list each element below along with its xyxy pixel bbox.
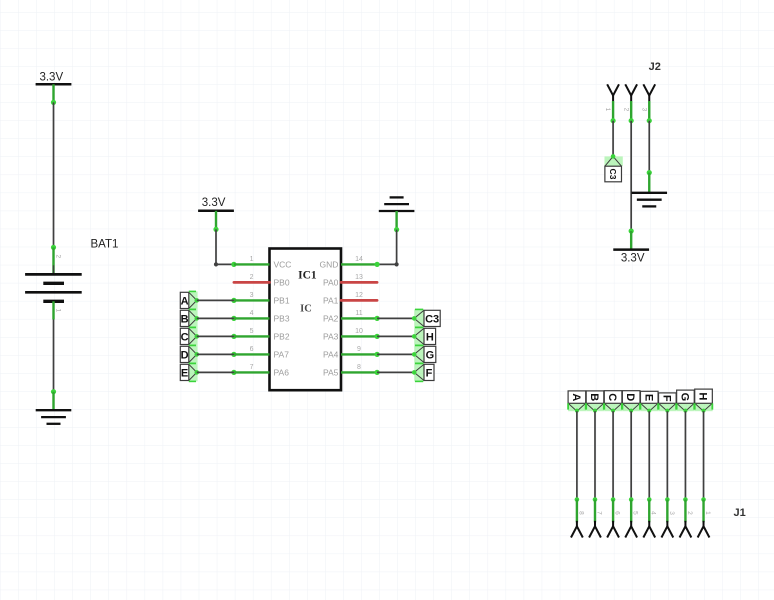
op-amp/IC body U=IC1 bbox=[270, 249, 342, 391]
connector J1 pin 1 bbox=[698, 497, 711, 537]
svg-text:GND: GND bbox=[320, 260, 339, 270]
net label B (J1) bbox=[586, 391, 604, 413]
IC1 pin 2 (PB0) bbox=[234, 274, 290, 288]
svg-text:5: 5 bbox=[250, 328, 254, 335]
wire (label C to IC) bbox=[197, 335, 234, 337]
svg-text:4: 4 bbox=[250, 310, 254, 317]
wire (ground to IC pin 14) bbox=[378, 211, 399, 267]
connector J2 pin 3 bbox=[640, 84, 655, 123]
svg-text:1: 1 bbox=[704, 511, 711, 515]
battery BAT1 pin 1 lead bbox=[52, 301, 54, 319]
svg-text:4: 4 bbox=[650, 511, 657, 515]
pin number 1 (BAT1) bbox=[55, 308, 62, 312]
wire (label C to J1 pin 6) bbox=[612, 411, 614, 499]
svg-text:IC1: IC1 bbox=[298, 269, 317, 281]
svg-text:PA1: PA1 bbox=[323, 296, 339, 306]
svg-text:BAT1: BAT1 bbox=[91, 239, 119, 251]
svg-text:13: 13 bbox=[355, 274, 363, 281]
svg-text:PB0: PB0 bbox=[274, 278, 290, 288]
wire (3.3V to IC pin 1) bbox=[213, 211, 234, 267]
svg-text:H: H bbox=[697, 392, 709, 400]
net label C3 (right) bbox=[412, 309, 440, 327]
svg-text:5: 5 bbox=[632, 511, 639, 515]
wire (label G to J1 pin 2) bbox=[684, 411, 686, 499]
svg-text:2: 2 bbox=[622, 108, 629, 112]
svg-text:C: C bbox=[181, 331, 189, 343]
wire (label H to J1 pin 1) bbox=[703, 411, 705, 499]
svg-text:E: E bbox=[181, 367, 188, 379]
ground (IC GND, inverted) bbox=[379, 197, 415, 211]
net label H (right) bbox=[412, 327, 436, 345]
svg-text:8: 8 bbox=[357, 364, 361, 371]
svg-text:3: 3 bbox=[640, 108, 647, 112]
power flag 3.3V (J2, inverted) bbox=[613, 250, 649, 265]
connector J1 pin 6 bbox=[607, 497, 620, 537]
IC1 pin 11 (PA2) bbox=[323, 310, 380, 324]
svg-text:3.3V: 3.3V bbox=[202, 197, 226, 209]
net label G (right) bbox=[412, 345, 436, 363]
wire (label A to J1 pin 8) bbox=[576, 411, 578, 499]
svg-text:11: 11 bbox=[355, 310, 362, 317]
wire (label B to J1 pin 7) bbox=[594, 411, 596, 499]
svg-text:PA5: PA5 bbox=[323, 368, 339, 378]
wire (J2 pin1 to C3 flag) bbox=[612, 121, 614, 157]
junction (battery pin 2 end) bbox=[51, 245, 56, 250]
net label G (J1) bbox=[677, 390, 695, 413]
svg-text:3: 3 bbox=[668, 511, 675, 515]
svg-text:6: 6 bbox=[613, 511, 620, 515]
label IC1 bbox=[298, 269, 317, 281]
svg-text:7: 7 bbox=[595, 511, 602, 515]
connector J1 pin 5 bbox=[625, 497, 638, 537]
svg-text:12: 12 bbox=[355, 292, 363, 299]
svg-text:PB3: PB3 bbox=[274, 314, 290, 324]
power flag 3.3V (battery positive net) bbox=[36, 72, 72, 85]
svg-text:7: 7 bbox=[250, 364, 254, 371]
wire (IC to label C3) bbox=[377, 317, 414, 319]
svg-text:9: 9 bbox=[357, 346, 361, 353]
wire (label D to IC) bbox=[197, 353, 234, 355]
wire (IC to label F) bbox=[377, 371, 414, 373]
svg-text:A: A bbox=[570, 393, 582, 401]
wire (3.3V flag to battery +) bbox=[51, 84, 56, 247]
IC1 pin 9 (PA4) bbox=[323, 346, 380, 360]
connector J1 pin 8 bbox=[571, 497, 584, 537]
IC1 pin 5 (PB2) bbox=[231, 328, 290, 342]
svg-text:D: D bbox=[624, 393, 636, 401]
label J2 bbox=[649, 61, 661, 73]
label IC bbox=[300, 303, 312, 314]
IC1 pin 6 (PA7) bbox=[231, 346, 289, 360]
wire (J2 pin3 to ground) bbox=[647, 121, 652, 193]
battery BAT1 symbol bbox=[25, 265, 82, 301]
svg-text:1: 1 bbox=[55, 308, 62, 312]
net label F (right) bbox=[412, 363, 434, 381]
svg-text:IC: IC bbox=[300, 303, 312, 314]
wire (J2 pin2 to 3.3V) bbox=[629, 121, 634, 250]
pin number 2 (BAT1) bbox=[55, 254, 62, 258]
svg-text:PA6: PA6 bbox=[274, 368, 290, 378]
wire (label F to J1 pin 3) bbox=[666, 411, 668, 499]
net label H (J1) bbox=[695, 389, 713, 413]
net label C (J1) bbox=[604, 391, 622, 413]
connector J2 pin 1 bbox=[604, 84, 619, 123]
svg-text:G: G bbox=[678, 393, 690, 402]
svg-text:PA4: PA4 bbox=[323, 350, 339, 360]
svg-text:D: D bbox=[181, 349, 189, 361]
IC1 pin 7 (PA6) bbox=[231, 364, 289, 378]
svg-text:2: 2 bbox=[250, 274, 254, 281]
IC1 pin 10 (PA3) bbox=[323, 328, 380, 342]
svg-text:B: B bbox=[181, 313, 189, 325]
IC1 pin 3 (PB1) bbox=[231, 292, 290, 306]
net label C (left) bbox=[180, 327, 199, 345]
wire (IC to label G) bbox=[377, 353, 414, 355]
svg-text:J1: J1 bbox=[734, 507, 746, 519]
svg-text:PA2: PA2 bbox=[323, 314, 339, 324]
net label A (left) bbox=[180, 291, 199, 309]
svg-text:H: H bbox=[426, 331, 434, 343]
IC1 pin 12 (PA1) bbox=[323, 292, 377, 306]
svg-text:F: F bbox=[660, 395, 672, 402]
svg-text:C3: C3 bbox=[425, 313, 439, 325]
svg-text:G: G bbox=[426, 349, 435, 361]
svg-text:PA0: PA0 bbox=[323, 278, 339, 288]
net label F (J1) bbox=[659, 393, 677, 413]
net label B (left) bbox=[180, 309, 199, 327]
net label C3 (J2 pin1) bbox=[604, 154, 622, 182]
svg-text:A: A bbox=[181, 295, 189, 307]
connector J1 pin 7 bbox=[589, 497, 602, 537]
svg-text:1: 1 bbox=[604, 108, 611, 112]
svg-text:6: 6 bbox=[250, 346, 254, 353]
net label E (left) bbox=[180, 363, 199, 381]
connector J2 pin 2 bbox=[622, 84, 637, 123]
svg-text:8: 8 bbox=[577, 511, 584, 515]
svg-text:F: F bbox=[426, 367, 433, 379]
svg-text:2: 2 bbox=[55, 254, 62, 258]
svg-text:VCC: VCC bbox=[274, 260, 292, 270]
IC1 pin 1 (VCC) bbox=[231, 256, 291, 270]
svg-text:14: 14 bbox=[355, 256, 363, 263]
svg-text:C: C bbox=[606, 393, 618, 401]
connector J1 pin 3 bbox=[661, 497, 674, 537]
svg-text:1: 1 bbox=[250, 256, 254, 263]
ground (J2) bbox=[631, 193, 667, 207]
svg-text:E: E bbox=[642, 394, 654, 401]
svg-text:C3: C3 bbox=[608, 169, 618, 180]
svg-text:B: B bbox=[588, 393, 600, 401]
svg-text:10: 10 bbox=[355, 328, 363, 335]
IC1 pin 14 (GND) bbox=[320, 256, 380, 270]
svg-text:PB2: PB2 bbox=[274, 332, 290, 342]
svg-text:3: 3 bbox=[250, 292, 254, 299]
connector J1 pin 4 bbox=[643, 497, 656, 537]
connector J1 pin 2 bbox=[680, 497, 693, 537]
power flag 3.3V (IC VCC) bbox=[198, 197, 234, 211]
net label E (J1) bbox=[640, 391, 658, 412]
svg-text:PB1: PB1 bbox=[274, 296, 290, 306]
svg-text:PA3: PA3 bbox=[323, 332, 339, 342]
IC1 pin 8 (PA5) bbox=[323, 364, 380, 378]
svg-text:2: 2 bbox=[686, 511, 693, 515]
wire (label B to IC) bbox=[197, 317, 234, 319]
wire (IC to label H) bbox=[377, 335, 414, 337]
battery BAT1 pin 2 lead bbox=[52, 247, 54, 273]
net label D (left) bbox=[180, 345, 199, 363]
svg-text:3.3V: 3.3V bbox=[621, 252, 645, 264]
label BAT1 bbox=[91, 239, 119, 251]
svg-text:J2: J2 bbox=[649, 61, 661, 73]
wire (label D to J1 pin 5) bbox=[630, 411, 632, 499]
wire (battery - to ground) bbox=[51, 320, 56, 411]
svg-text:3.3V: 3.3V bbox=[39, 72, 63, 84]
svg-text:PA7: PA7 bbox=[274, 350, 290, 360]
net label A (J1) bbox=[568, 391, 586, 413]
ground (battery) bbox=[36, 410, 72, 424]
label J1 bbox=[734, 507, 746, 519]
wire (label A to IC) bbox=[197, 299, 234, 301]
IC1 pin 4 (PB3) bbox=[231, 310, 290, 324]
net label D (J1) bbox=[622, 391, 640, 413]
wire (label E to IC) bbox=[197, 371, 234, 373]
wire (label E to J1 pin 4) bbox=[648, 411, 650, 499]
IC1 pin 13 (PA0) bbox=[323, 274, 377, 288]
